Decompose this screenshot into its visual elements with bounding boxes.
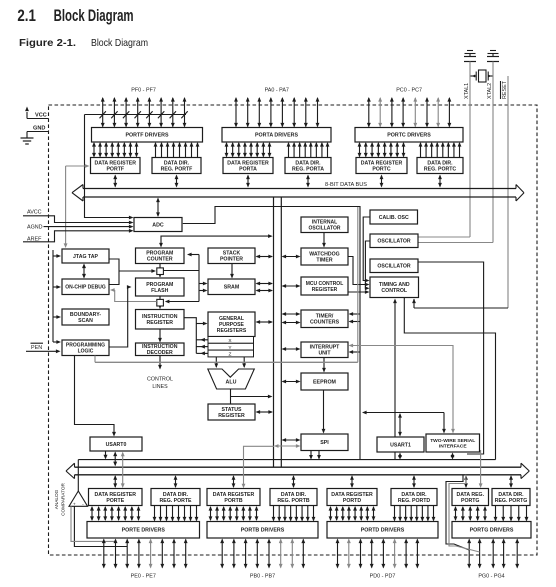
wire DATA DIR. REG. PORTF to data bus — [175, 175, 179, 188]
bottom data bus (horizontal bus with end arrows) — [66, 463, 529, 478]
svg-text:CONTROL: CONTROL — [147, 377, 173, 383]
wire timing and control loop to two-wire/usart1 region — [404, 298, 495, 460]
block DATA DIR. REG. PORTE — [151, 489, 200, 506]
wire instruction register to instruction decoder — [158, 329, 162, 343]
pin label RESET (rotated, active low overline) — [501, 80, 509, 99]
svg-text:OSCILLATOR: OSCILLATOR — [377, 264, 410, 270]
svg-text:PORTF DRIVERS: PORTF DRIVERS — [126, 133, 169, 139]
block INTERRUPT UNIT — [301, 342, 348, 358]
register Z — [208, 350, 254, 358]
svg-text:DATA DIR.: DATA DIR. — [281, 492, 307, 498]
svg-text:POINTER: POINTER — [220, 257, 243, 263]
svg-text:PORTG: PORTG — [461, 498, 479, 504]
XTAL1 load capacitor and ground — [464, 51, 476, 62]
block DATA DIR. REG. PORTB — [270, 489, 317, 506]
svg-text:Z: Z — [229, 352, 232, 358]
port E pin arrows — [102, 539, 188, 569]
pin label PD0 - PD7 — [370, 574, 396, 580]
svg-text:REG. PORTC: REG. PORTC — [424, 166, 457, 172]
wires DATA REGISTER PORTC to drivers — [358, 142, 406, 158]
svg-text:JTAG TAP: JTAG TAP — [73, 254, 98, 260]
block WATCHDOG TIMER — [301, 248, 348, 265]
label PEN (active low) input — [26, 343, 61, 353]
wire MCU control register to vertical bus — [282, 284, 301, 288]
svg-text:PORTC DRIVERS: PORTC DRIVERS — [387, 133, 431, 139]
wires DATA DIR. REG. PORTB to drivers — [272, 506, 316, 522]
wire gray net SPI to PORTB data register — [242, 446, 274, 488]
block INSTRUCTION DECODER — [136, 343, 185, 356]
block TIMER/COUNTERS — [301, 310, 348, 328]
wire EEPROM to vertical bus — [282, 380, 301, 384]
wire DATA DIR. REG. PORTB to bottom bus — [292, 475, 296, 488]
svg-text:PEN: PEN — [31, 345, 42, 351]
svg-text:PORTB DRIVERS: PORTB DRIVERS — [241, 528, 285, 534]
label ANALOG COMPARATOR (rotated) — [54, 482, 66, 515]
block DATA REGISTER PORTB — [207, 489, 260, 506]
svg-text:INSTRUCTION: INSTRUCTION — [142, 344, 178, 350]
wire calibration oscillator to timing and control — [363, 217, 370, 282]
svg-text:OSCILLATOR: OSCILLATOR — [377, 239, 410, 245]
svg-text:UNIT: UNIT — [318, 351, 331, 357]
svg-text:Figure 2-1.: Figure 2-1. — [19, 37, 76, 49]
svg-text:USART0: USART0 — [106, 442, 127, 448]
wire DATA REGISTER PORTG to bottom bus — [464, 475, 468, 488]
wire JTAG TAP to flash tap junction — [109, 259, 156, 285]
svg-text:Block Diagram: Block Diagram — [91, 37, 148, 49]
wires DATA REGISTER PORTD to drivers — [329, 506, 376, 521]
block DATA DIR. REG. PORTG — [492, 489, 530, 506]
wire internal oscillator to watchdog timer — [322, 233, 326, 248]
block PROGRAM FLASH — [136, 278, 185, 296]
wire peripheral select line to USART1 and two-wire serial interface — [362, 411, 446, 434]
svg-text:OSCILLATOR: OSCILLATOR — [308, 226, 340, 232]
svg-text:VCC: VCC — [35, 113, 47, 119]
wire SPI to vertical bus (black) — [282, 438, 301, 442]
wire DATA DIR. REG. PORTD to bottom bus — [412, 475, 416, 488]
pin label XTAL2 (rotated) — [487, 83, 493, 99]
wires DATA REGISTER PORTE to drivers — [90, 506, 140, 521]
wire RESET vertical into chip to timing and control — [412, 76, 508, 308]
wires DATA DIR. REG. PORTC to drivers — [419, 142, 462, 158]
wires DATA DIR. REG. PORTA to drivers — [287, 142, 330, 158]
svg-text:ALU: ALU — [226, 380, 237, 386]
svg-text:INSTRUCTION: INSTRUCTION — [142, 314, 178, 320]
svg-text:LOGIC: LOGIC — [78, 349, 94, 355]
svg-text:PORTD: PORTD — [343, 498, 361, 504]
svg-text:STATUS: STATUS — [222, 407, 243, 413]
block DATA REGISTER PORTD — [327, 489, 377, 506]
wire status register to vertical bus — [256, 410, 274, 414]
svg-text:ON-CHIP DEBUG: ON-CHIP DEBUG — [65, 285, 106, 291]
wire EEPROM to SPI — [322, 390, 326, 434]
svg-text:DATA DIR.: DATA DIR. — [401, 492, 427, 498]
wire DATA REGISTER PORTC to data bus — [380, 175, 384, 188]
block DATA REGISTER PORTE — [89, 489, 143, 506]
wires SRAM to vertical bus — [256, 282, 274, 293]
wire ADC to timing/control column (around top) — [183, 207, 360, 460]
block TWO-WIRE SERIAL INTERFACE — [426, 434, 480, 452]
block JTAG TAP — [62, 249, 109, 263]
wire USART1 to select line — [398, 413, 402, 437]
wire JTAG TAP to ON-CHIP DEBUG — [82, 264, 86, 279]
block DATA REGISTER PORTC — [356, 158, 407, 174]
svg-text:DATA REGISTER: DATA REGISTER — [213, 492, 255, 498]
block STATUS REGISTER — [208, 404, 255, 420]
svg-text:SRAM: SRAM — [224, 285, 240, 291]
analog ground input AGND — [27, 225, 134, 231]
analog comparator (op-amp triangle with + -) — [69, 491, 88, 508]
svg-text:INTERRUPT: INTERRUPT — [310, 345, 341, 351]
svg-text:BOUNDARY-: BOUNDARY- — [70, 312, 101, 318]
svg-text:DATA REGISTER: DATA REGISTER — [227, 160, 269, 166]
wire instruction decoder to control lines — [158, 356, 162, 370]
svg-text:PD0 - PD7: PD0 - PD7 — [370, 574, 396, 580]
pin label PG0 - PG4 — [478, 574, 504, 580]
svg-text:PORTD DRIVERS: PORTD DRIVERS — [361, 528, 405, 534]
wire tap junction feed to program counter and SRAM — [164, 253, 208, 304]
wire watchdog to timing and control — [348, 257, 370, 287]
svg-text:PB0 - PB7: PB0 - PB7 — [250, 574, 275, 580]
svg-text:REG. PORTE: REG. PORTE — [160, 498, 193, 504]
svg-text:COMPARATOR: COMPARATOR — [61, 482, 66, 515]
svg-text:REG. PORTG: REG. PORTG — [495, 498, 528, 504]
block DATA REGISTER PORTF — [91, 158, 141, 174]
svg-text:DATA REGISTER: DATA REGISTER — [95, 492, 137, 498]
svg-text:DATA REGISTER: DATA REGISTER — [361, 160, 403, 166]
page title heading 2.1 Block Diagram — [17, 6, 133, 25]
svg-text:DATA REGISTER: DATA REGISTER — [331, 492, 373, 498]
block PROGRAMMING LOGIC — [62, 340, 109, 356]
wire USART1 to bottom bus — [398, 453, 402, 460]
wires DATA REGISTER PORTF to drivers — [92, 142, 138, 158]
XTAL2 load capacitor and ground — [487, 51, 499, 62]
port C pin arrows — [367, 97, 451, 128]
wire interrupt unit to timing column (black) — [349, 350, 361, 354]
svg-text:DATA DIR.: DATA DIR. — [295, 160, 321, 166]
8-bit data bus (top horizontal bus with end arrows) — [72, 185, 524, 202]
svg-text:REGISTER: REGISTER — [146, 320, 173, 326]
block PORTA DRIVERS — [222, 128, 331, 143]
pin label PE0 - PE7 — [131, 574, 156, 580]
svg-text:PORTA: PORTA — [239, 166, 257, 172]
port A pin arrows — [234, 97, 319, 128]
block DATA DIR. REG. PORTD — [391, 489, 437, 506]
svg-text:REG. PORTF: REG. PORTF — [161, 166, 193, 172]
bus label 8-BIT DATA BUS — [325, 182, 367, 188]
wire XTAL2 vertical into chip — [418, 62, 493, 243]
wire interrupt unit to vertical bus — [282, 347, 301, 351]
svg-text:TWO-WIRE SERIAL: TWO-WIRE SERIAL — [430, 438, 475, 444]
port B pin arrows — [220, 539, 305, 569]
svg-text:REGISTER: REGISTER — [218, 413, 245, 419]
svg-text:INTERFACE: INTERFACE — [439, 444, 467, 450]
wires timer/counters to vertical bus — [282, 312, 301, 324]
svg-text:PORTE: PORTE — [106, 498, 124, 504]
ALU — [208, 369, 255, 389]
label CONTROL LINES — [147, 377, 173, 391]
block PROGRAM COUNTER — [136, 248, 185, 264]
svg-text:PORTF: PORTF — [106, 166, 124, 172]
svg-text:STACK: STACK — [223, 251, 241, 257]
block GENERAL PURPOSE REGISTERS — [208, 312, 255, 337]
wire DATA DIR. REG. PORTE to bottom bus — [174, 475, 178, 488]
wire DATA REGISTER PORTA to data bus — [246, 175, 250, 188]
svg-text:PE0 - PE7: PE0 - PE7 — [131, 574, 156, 580]
svg-text:PC0 - PC7: PC0 - PC7 — [396, 88, 422, 94]
wires SPI to bottom data bus — [309, 451, 321, 460]
block STACK POINTER — [208, 248, 255, 264]
register X — [208, 337, 254, 345]
chip boundary (dashed border) — [49, 105, 538, 555]
port G pin arrows — [467, 539, 519, 569]
figure caption Figure 2-1. Block Diagram — [19, 37, 148, 49]
block DATA DIR. REG. PORTA — [285, 158, 331, 174]
wires general purpose registers to ALU — [214, 357, 246, 368]
svg-text:SPI: SPI — [320, 440, 329, 446]
wire two-wire serial interface to bottom bus — [451, 453, 455, 460]
block PORTG DRIVERS — [452, 522, 531, 539]
svg-text:DATA DIR.: DATA DIR. — [498, 492, 524, 498]
wire DATA DIR. REG. PORTA to data bus — [306, 175, 310, 188]
wire DATA REGISTER PORTB to bottom bus — [232, 475, 236, 488]
wire DATA REGISTER PORTF to data bus — [113, 175, 117, 188]
wires DATA DIR. REG. PORTG to drivers — [494, 506, 529, 522]
svg-text:ANALOG: ANALOG — [54, 489, 59, 509]
svg-text:PORTC: PORTC — [372, 166, 390, 172]
wire ADC to data bus — [156, 198, 160, 218]
analog reference input AREF — [23, 229, 134, 243]
block DATA DIR. REG. PORTC — [417, 158, 463, 174]
block SPI — [301, 434, 348, 451]
block PORTF DRIVERS — [92, 128, 203, 143]
wire USART0 to bottom bus — [113, 452, 117, 467]
block INTERNAL OSCILLATOR — [301, 217, 348, 233]
block PORTC DRIVERS — [355, 128, 463, 143]
wire DATA DIR. REG. PORTG to bottom bus — [509, 475, 513, 488]
svg-text:LINES: LINES — [152, 384, 168, 390]
svg-text:PORTB: PORTB — [224, 498, 242, 504]
wire SPI to vertical bus (gray) — [274, 444, 301, 448]
svg-text:COUNTER: COUNTER — [147, 257, 173, 263]
wire stack pointer to SRAM — [230, 264, 234, 279]
svg-text:COUNTERS: COUNTERS — [310, 320, 340, 326]
block OSCILLATOR (main) — [370, 234, 418, 248]
svg-text:TIMER/: TIMER/ — [316, 314, 334, 320]
block DATA REGISTER PORTA — [223, 158, 273, 174]
svg-text:TIMER: TIMER — [316, 257, 332, 263]
central vertical data bus lines — [274, 197, 282, 467]
wire comparator feed from bottom bus — [77, 460, 79, 491]
block PORTD DRIVERS — [327, 522, 438, 539]
wire program counter to vertical data bus — [159, 234, 273, 247]
block DATA REGISTER PORTG — [452, 489, 489, 506]
wire instruction register to general purpose registers and pointer registers — [184, 318, 208, 356]
svg-text:TIMING AND: TIMING AND — [379, 282, 410, 288]
wire gray comparator input from PE2 pin — [71, 506, 116, 541]
wire gray net USART0 to PORTE data register — [121, 452, 125, 488]
svg-text:DATA DIR.: DATA DIR. — [163, 492, 189, 498]
wire XTAL1 vertical into chip — [418, 62, 470, 238]
power pin VCC — [25, 107, 48, 119]
port F pin arrows — [101, 97, 187, 128]
svg-text:PF0 - PF7: PF0 - PF7 — [131, 88, 156, 94]
svg-text:FLASH: FLASH — [151, 288, 169, 294]
pin label PB0 - PB7 — [250, 574, 275, 580]
wire gray net from DATA REGISTER PORTF down to JTAG TAP — [64, 164, 90, 248]
wire DATA DIR. REG. PORTC to data bus — [438, 175, 442, 188]
block SRAM — [208, 279, 255, 295]
block TIMING AND CONTROL — [370, 277, 419, 298]
pin label PF0 - PF7 — [131, 88, 156, 94]
wire DATA REGISTER PORTE to bottom bus — [113, 475, 117, 488]
wire programming logic to program flash (write path) — [109, 285, 132, 347]
svg-text:DATA DIR.: DATA DIR. — [427, 160, 453, 166]
svg-text:REG. PORTA: REG. PORTA — [292, 166, 324, 172]
block USART1 — [377, 437, 424, 452]
svg-text:USART1: USART1 — [390, 442, 411, 448]
svg-text:REG. PORTD: REG. PORTD — [398, 498, 431, 504]
block INSTRUCTION REGISTER — [136, 310, 185, 330]
wire USART0 to peripheral interconnect — [104, 451, 108, 459]
ground pin GND with ground symbol — [21, 126, 49, 145]
block BOUNDARY-SCAN — [62, 309, 109, 325]
block MCU CONTROL REGISTER — [301, 277, 348, 295]
wires DATA DIR. REG. PORTE to drivers — [153, 506, 199, 522]
register Y — [208, 343, 254, 351]
wire analog input tap across PORTF pins to ADC — [85, 111, 188, 219]
wire comparator input from PE3 pin (black) — [74, 506, 127, 546]
svg-text:SCAN: SCAN — [78, 318, 93, 324]
svg-text:XTAL1: XTAL1 — [464, 83, 470, 99]
svg-text:DATA REGISTER: DATA REGISTER — [95, 160, 137, 166]
block CALIB. OSC — [370, 210, 418, 224]
wire general purpose registers to vertical bus — [256, 320, 274, 324]
svg-text:REGISTER: REGISTER — [312, 287, 338, 293]
wire gray net interrupt unit to two-wire serial interface — [349, 344, 455, 434]
block USART0 — [90, 437, 142, 451]
svg-text:PORTE DRIVERS: PORTE DRIVERS — [122, 528, 166, 534]
wire gray long horizontal control net — [95, 207, 358, 362]
wire program counter to program flash with tap junction — [157, 264, 164, 278]
svg-text:GND: GND — [33, 126, 45, 132]
svg-text:REG. PORTB: REG. PORTB — [277, 498, 310, 504]
block EEPROM — [301, 373, 348, 390]
svg-text:AGND: AGND — [27, 225, 43, 231]
wire oscillator to timing and control — [365, 241, 370, 290]
pin label PC0 - PC7 — [396, 88, 422, 94]
pin label PA0 - PA7 — [265, 88, 289, 94]
block ADC — [134, 218, 182, 232]
wires DATA REGISTER PORTG to drivers — [454, 506, 487, 521]
wire gray wrap-around to PG1 pin — [449, 475, 480, 552]
svg-text:WATCHDOG: WATCHDOG — [309, 251, 339, 257]
svg-text:DECODER: DECODER — [147, 350, 173, 356]
svg-text:REGISTERS: REGISTERS — [217, 328, 247, 334]
svg-text:Block Diagram: Block Diagram — [54, 6, 134, 25]
svg-text:EEPROM: EEPROM — [313, 379, 337, 385]
wire timing and control down to bottom bus — [393, 299, 397, 460]
svg-text:CALIB. OSC: CALIB. OSC — [379, 215, 409, 221]
svg-text:DATA DIR.: DATA DIR. — [164, 160, 190, 166]
svg-text:2.1: 2.1 — [17, 6, 36, 25]
wire ALU to status register and to bus — [231, 389, 273, 404]
svg-text:PA0 - PA7: PA0 - PA7 — [265, 88, 289, 94]
crystal between XTAL1 and XTAL2 — [470, 70, 493, 82]
svg-text:CONTROL: CONTROL — [381, 288, 407, 294]
svg-text:XTAL2: XTAL2 — [487, 83, 493, 99]
block OSCILLATOR (timer) — [370, 259, 418, 273]
block PORTE DRIVERS — [87, 522, 200, 539]
wire gray net into PORTG data register — [479, 450, 483, 488]
peripheral interconnect wire above bottom bus — [78, 459, 495, 461]
wire programming logic down to USART0 — [75, 356, 117, 437]
wire stack pointer to vertical bus — [256, 255, 274, 259]
wire MCU control register to timing and control — [348, 290, 370, 294]
block DATA DIR. REG. PORTF — [152, 158, 201, 174]
wires DATA DIR. REG. PORTF to drivers — [154, 142, 200, 158]
svg-text:PORTG DRIVERS: PORTG DRIVERS — [470, 528, 514, 534]
svg-text:PROGRAM: PROGRAM — [146, 251, 173, 257]
pin label XTAL1 (rotated) — [464, 83, 470, 99]
svg-text:PORTA DRIVERS: PORTA DRIVERS — [255, 133, 298, 139]
analog supply input AVCC — [23, 210, 134, 225]
svg-text:PROGRAM: PROGRAM — [146, 282, 173, 288]
port D pin arrows — [336, 539, 420, 569]
block PORTB DRIVERS — [207, 522, 318, 539]
wire DATA REGISTER PORTD to bottom bus — [350, 475, 354, 488]
svg-text:AVCC: AVCC — [27, 210, 42, 216]
wires timer/counters to timing column — [349, 312, 361, 323]
svg-text:DATA REG.: DATA REG. — [456, 492, 484, 498]
wire bus wrap-around to PG0 pin (black) — [446, 475, 469, 550]
wire watchdog timer to vertical bus — [282, 255, 301, 259]
wire program flash to instruction register with tap junction — [157, 296, 164, 309]
wire gray net ON-CHIP DEBUG to lower flash tap junction — [110, 288, 157, 301]
svg-text:8-BIT DATA BUS: 8-BIT DATA BUS — [325, 182, 367, 188]
wires DATA REGISTER PORTB to drivers — [209, 506, 259, 521]
svg-text:ADC: ADC — [152, 222, 164, 228]
wires DATA DIR. REG. PORTD to drivers — [393, 506, 436, 522]
svg-text:PG0 - PG4: PG0 - PG4 — [478, 574, 504, 580]
block ON-CHIP DEBUG — [62, 279, 109, 295]
wire oscillator (timer) to PORTG region — [418, 262, 484, 454]
wire interrupt unit to EEPROM — [322, 358, 326, 373]
svg-text:RESET: RESET — [502, 80, 508, 99]
wires DATA REGISTER PORTA to drivers — [225, 142, 272, 158]
wire left control line with arrows into JTAG/OCD/BOUNDARY/PROGRAMMING blocks — [53, 250, 61, 344]
